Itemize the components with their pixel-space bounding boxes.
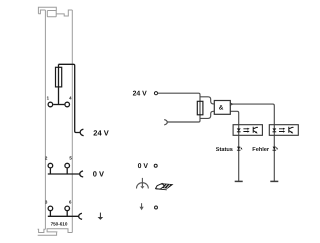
connector pair out — [164, 120, 167, 125]
terminal 2 — [48, 163, 53, 168]
coupling arrows — [279, 129, 283, 132]
tap wire upper — [200, 97, 214, 104]
housing foot bottom — [38, 232, 57, 235]
svg-text:Fehler: Fehler — [252, 146, 270, 153]
housing top step well — [56, 10, 72, 16]
tool blade icon — [156, 183, 174, 190]
svg-text:1: 1 — [47, 95, 50, 100]
svg-text:&: & — [219, 105, 224, 112]
stub terminal 6 — [66, 211, 68, 216]
fuse F1 — [56, 67, 62, 87]
AND gate U1 — [214, 101, 230, 115]
optocoupler box Status — [233, 125, 262, 136]
connector 24V out — [80, 129, 83, 136]
connector 0V out — [80, 171, 83, 177]
stub terminal 2 — [49, 168, 51, 174]
svg-text:2: 2 — [45, 156, 48, 161]
stub terminal 3 — [49, 211, 51, 216]
wire AND out bottom to Status — [230, 111, 238, 181]
terminal 5 — [65, 163, 70, 168]
svg-text:750-610: 750-610 — [51, 221, 68, 226]
terminal 1 — [48, 102, 53, 107]
phototransistor — [253, 127, 258, 133]
optocoupler box Fehler — [269, 125, 298, 136]
svg-text:4: 4 — [69, 95, 72, 100]
tap wire lower — [200, 111, 214, 118]
wire 0V bus — [48, 173, 80, 175]
terminal 3 — [48, 206, 53, 211]
fuse F2 — [197, 101, 203, 115]
fuse lead top — [58, 64, 60, 104]
terminal circle 0V field — [154, 164, 157, 167]
terminal 4 — [65, 102, 70, 107]
bar end Status — [235, 180, 243, 182]
right supply wire loop — [158, 93, 275, 181]
svg-text:Status: Status — [216, 147, 233, 153]
wire 24V in — [158, 93, 201, 122]
connector earth out — [79, 213, 82, 219]
circle field bottom — [155, 206, 158, 209]
housing recess rect — [47, 11, 56, 17]
LED indicator Status — [237, 147, 242, 151]
svg-text:6: 6 — [69, 200, 72, 205]
wire terminals 1-4 — [53, 104, 64, 106]
wire AND out top to Fehler — [232, 104, 274, 181]
housing foot left — [38, 229, 46, 232]
housing right edge — [71, 10, 73, 233]
terminal 6 — [65, 206, 70, 211]
stub terminal 5 — [66, 168, 68, 174]
svg-text:3: 3 — [45, 200, 48, 205]
terminal circle 24V field — [154, 92, 157, 95]
wire earth bus — [48, 215, 79, 217]
housing left edge — [44, 10, 46, 229]
svg-text:0 V: 0 V — [93, 170, 104, 179]
svg-text:24 V: 24 V — [93, 128, 108, 137]
housing top hook — [38, 7, 73, 235]
housing foot inner step — [47, 229, 72, 233]
LED — [272, 128, 276, 131]
svg-text:24 V: 24 V — [133, 90, 148, 97]
power feed symbol — [137, 178, 149, 189]
coupling arrows — [243, 129, 247, 132]
LED indicator Fehler — [273, 147, 278, 151]
arrow down field — [140, 203, 144, 210]
left module circuit — [48, 64, 84, 219]
arrow down module earth — [98, 213, 104, 220]
AND output arrow — [230, 103, 232, 105]
bar end Fehler — [270, 180, 278, 182]
wire fuse top to 24V drop — [59, 64, 81, 132]
LED — [237, 128, 241, 131]
svg-text:0 V: 0 V — [138, 163, 149, 170]
phototransistor — [289, 127, 294, 133]
